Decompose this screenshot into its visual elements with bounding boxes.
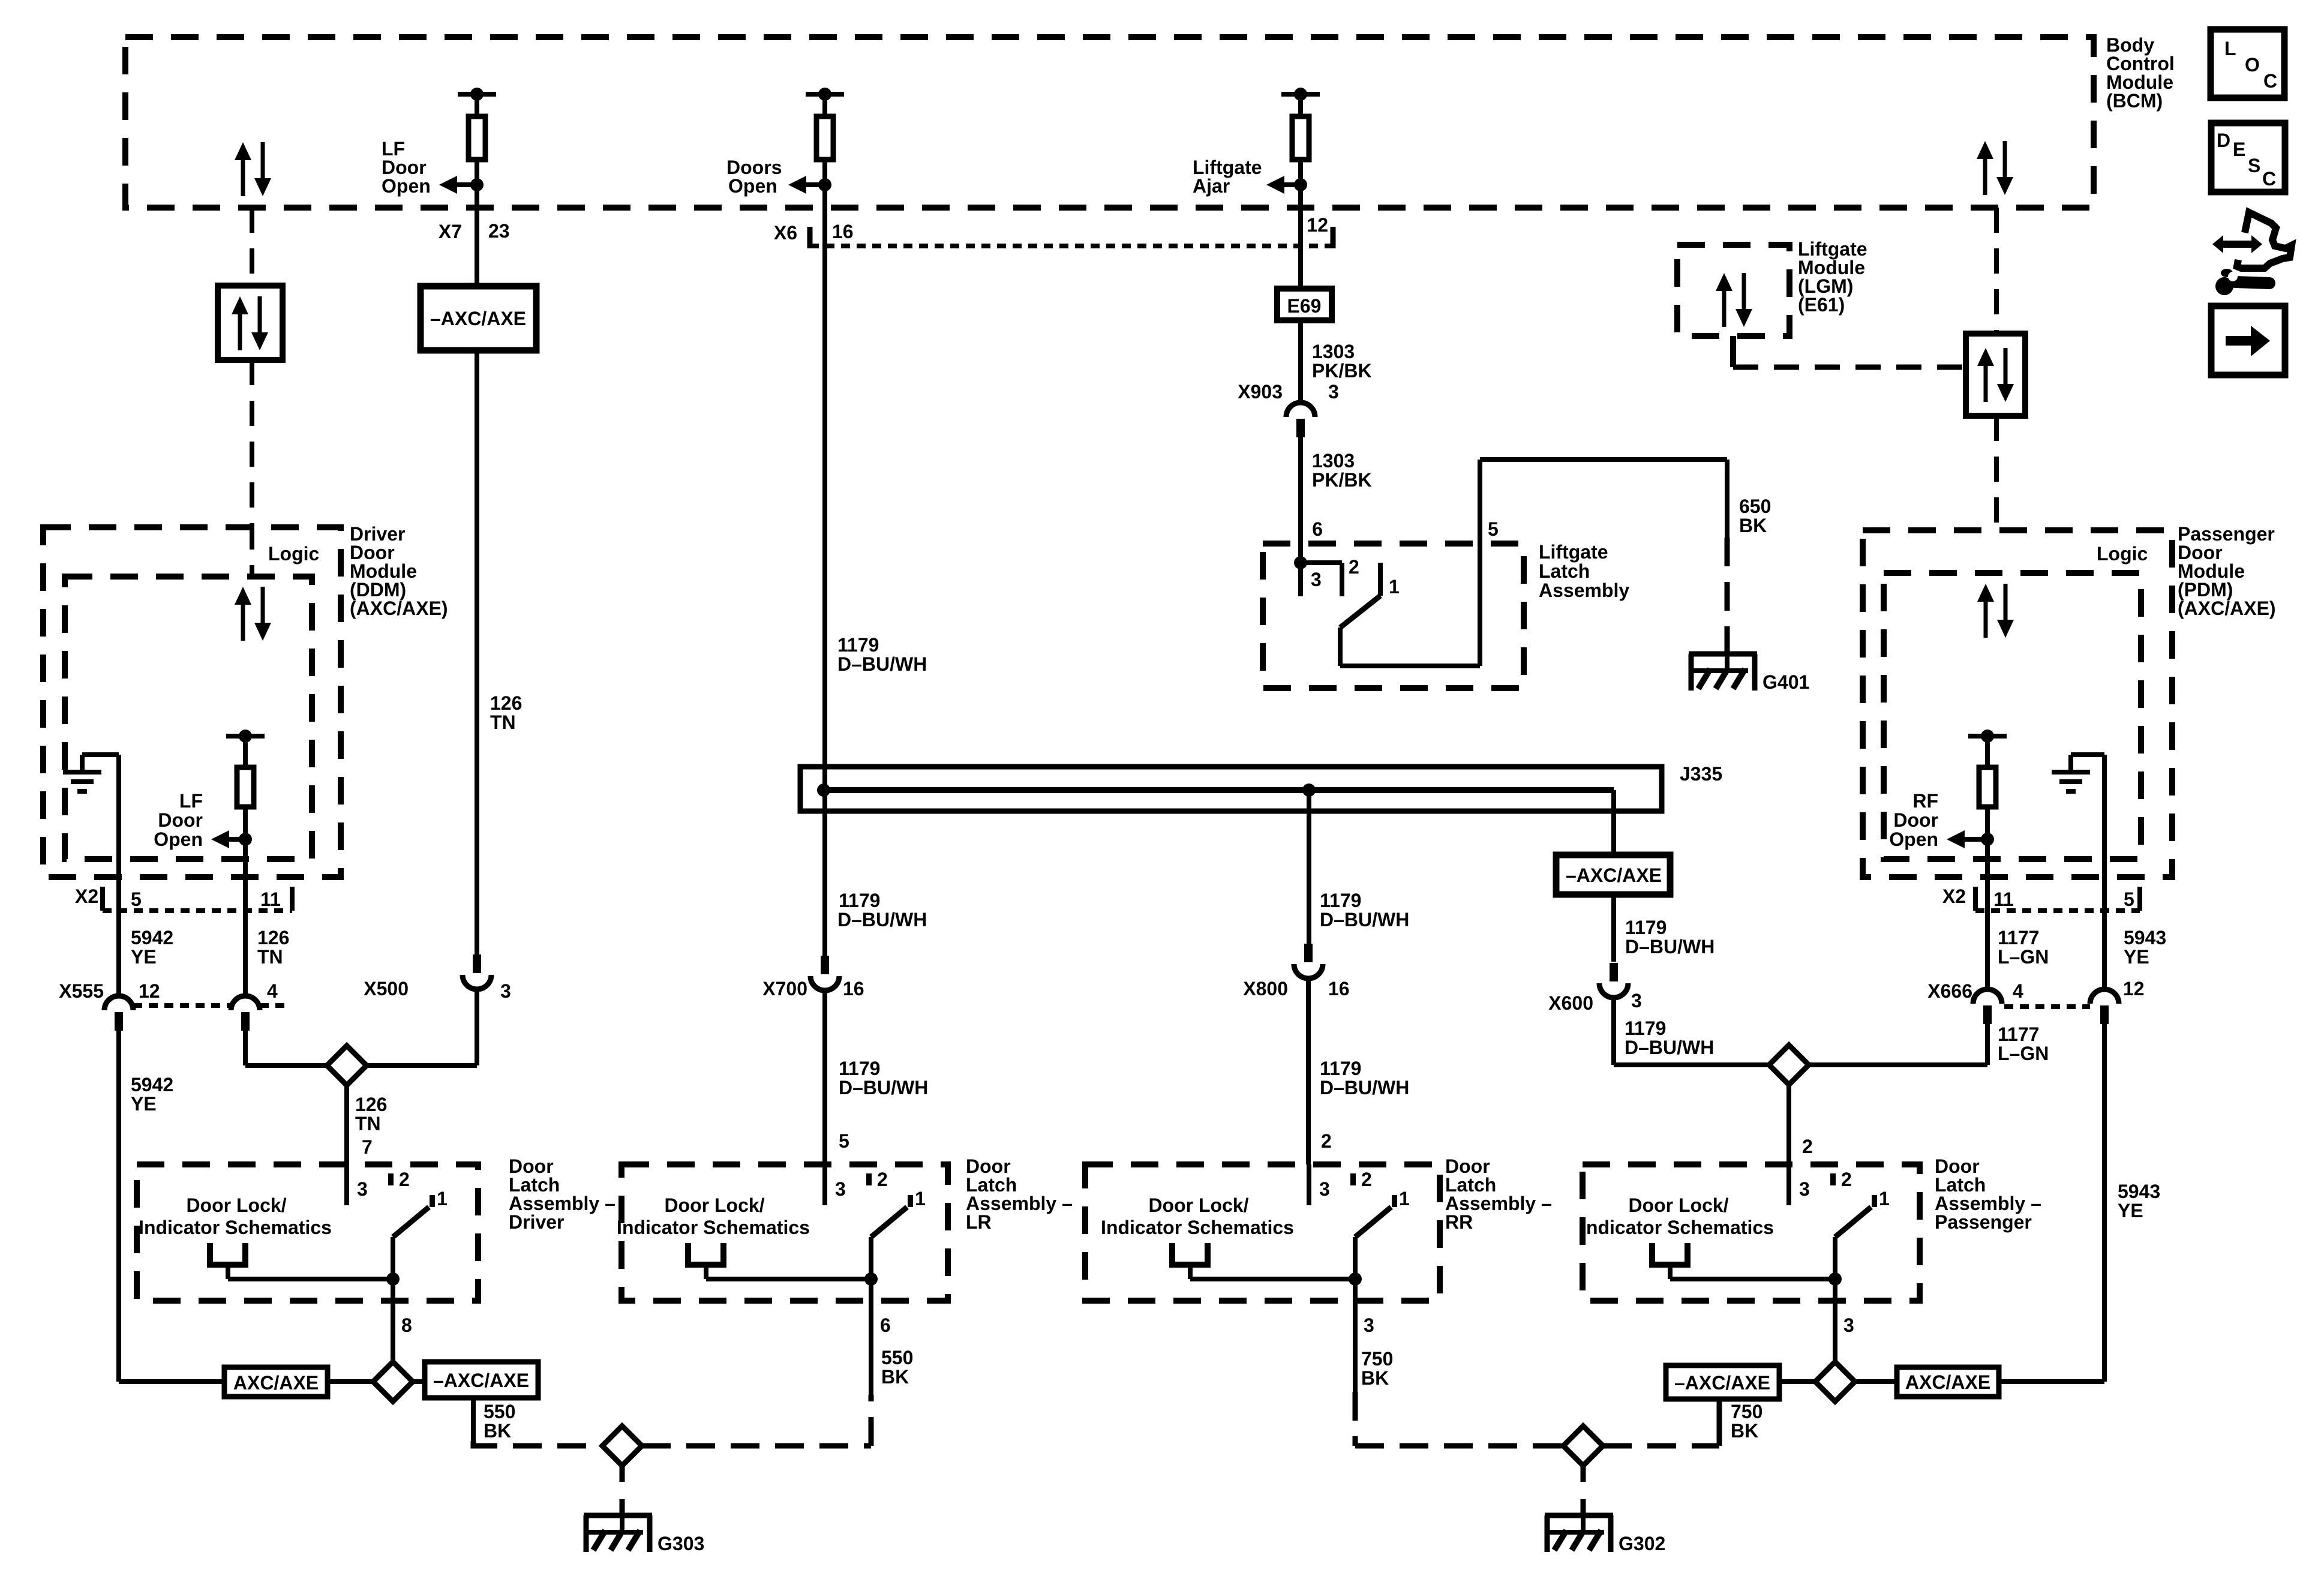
svg-text:1177: 1177: [1998, 927, 2039, 948]
svg-text:Door Lock/: Door Lock/: [1628, 1194, 1728, 1216]
svg-text:3: 3: [1328, 381, 1339, 403]
svg-text:Open: Open: [382, 175, 431, 197]
svg-text:3: 3: [1843, 1314, 1854, 1336]
svg-text:Door: Door: [158, 809, 203, 831]
svg-text:D–BU/WH: D–BU/WH: [837, 653, 927, 675]
svg-text:TN: TN: [257, 946, 283, 968]
svg-text:Open: Open: [1889, 828, 1938, 850]
svg-text:Liftgate: Liftgate: [1539, 541, 1608, 563]
svg-text:G401: G401: [1762, 671, 1809, 693]
svg-text:O: O: [2245, 54, 2260, 76]
svg-text:16: 16: [832, 221, 854, 242]
svg-text:1177: 1177: [1998, 1023, 2039, 1045]
svg-text:5: 5: [1488, 518, 1499, 540]
svg-text:Door Lock/: Door Lock/: [1148, 1194, 1248, 1216]
svg-text:12: 12: [2123, 978, 2145, 999]
svg-text:Driver: Driver: [509, 1211, 565, 1233]
svg-text:Assembly: Assembly: [1539, 580, 1629, 601]
svg-text:550: 550: [881, 1347, 913, 1368]
svg-text:16: 16: [1328, 978, 1350, 999]
svg-text:1179: 1179: [1320, 1058, 1361, 1079]
svg-text:Door: Door: [1893, 809, 1938, 831]
svg-text:D–BU/WH: D–BU/WH: [839, 1077, 928, 1098]
svg-text:YE: YE: [131, 946, 157, 968]
svg-text:Logic: Logic: [2097, 543, 2148, 565]
svg-text:2: 2: [1361, 1169, 1372, 1190]
svg-text:5942: 5942: [131, 1074, 173, 1095]
svg-text:X700: X700: [762, 978, 807, 999]
svg-text:–AXC/AXE: –AXC/AXE: [1674, 1372, 1770, 1394]
svg-text:1: 1: [1389, 576, 1400, 598]
svg-text:126: 126: [355, 1094, 387, 1115]
svg-text:(BCM): (BCM): [2106, 90, 2163, 112]
svg-text:750: 750: [1731, 1401, 1762, 1422]
svg-text:1179: 1179: [839, 1058, 880, 1079]
svg-text:1179: 1179: [839, 890, 880, 911]
svg-text:5: 5: [131, 888, 142, 910]
svg-text:5: 5: [2124, 888, 2134, 910]
svg-text:BK: BK: [1731, 1420, 1758, 1442]
svg-text:6: 6: [1312, 518, 1323, 540]
svg-text:–AXC/AXE: –AXC/AXE: [433, 1370, 529, 1391]
svg-text:2: 2: [1841, 1169, 1852, 1190]
svg-text:3: 3: [357, 1178, 368, 1200]
svg-text:X800: X800: [1243, 978, 1288, 999]
svg-text:11: 11: [260, 888, 281, 910]
svg-text:PK/BK: PK/BK: [1312, 469, 1372, 491]
svg-text:2: 2: [877, 1169, 888, 1190]
svg-text:23: 23: [488, 220, 510, 242]
svg-text:Passenger: Passenger: [1935, 1211, 2032, 1233]
svg-text:1179: 1179: [837, 634, 879, 656]
svg-text:6: 6: [880, 1314, 891, 1336]
svg-text:Door Lock/: Door Lock/: [664, 1194, 764, 1216]
svg-text:Indicator Schematics: Indicator Schematics: [1581, 1217, 1774, 1238]
svg-text:S: S: [2248, 155, 2260, 176]
svg-text:X7: X7: [439, 221, 462, 242]
svg-text:2: 2: [399, 1169, 410, 1190]
svg-text:Door Lock/: Door Lock/: [186, 1194, 286, 1216]
svg-text:Indicator Schematics: Indicator Schematics: [617, 1217, 810, 1238]
svg-text:11: 11: [1993, 888, 2014, 910]
svg-text:E: E: [2233, 139, 2245, 160]
svg-text:J335: J335: [1680, 763, 1722, 785]
svg-text:X903: X903: [1238, 381, 1283, 403]
svg-text:E69: E69: [1287, 295, 1322, 317]
svg-text:TN: TN: [355, 1113, 381, 1134]
svg-text:1179: 1179: [1625, 917, 1667, 938]
svg-text:(AXC/AXE): (AXC/AXE): [350, 598, 448, 619]
svg-text:Logic: Logic: [268, 543, 319, 565]
svg-text:RF: RF: [1912, 790, 1938, 812]
svg-text:D–BU/WH: D–BU/WH: [1625, 1037, 1714, 1058]
svg-text:TN: TN: [490, 712, 516, 733]
svg-text:D–BU/WH: D–BU/WH: [1625, 936, 1715, 957]
svg-text:X2: X2: [1942, 885, 1966, 907]
svg-text:7: 7: [362, 1136, 373, 1158]
svg-text:X6: X6: [774, 222, 797, 244]
svg-text:8: 8: [401, 1314, 412, 1336]
svg-text:126: 126: [257, 927, 289, 948]
svg-text:–AXC/AXE: –AXC/AXE: [430, 308, 526, 329]
svg-text:D: D: [2217, 130, 2230, 151]
svg-text:L–GN: L–GN: [1998, 1043, 2049, 1064]
svg-text:G303: G303: [657, 1533, 704, 1554]
svg-text:3: 3: [1364, 1314, 1374, 1336]
svg-text:3: 3: [1799, 1178, 1810, 1200]
svg-text:4: 4: [267, 980, 278, 1002]
svg-text:5943: 5943: [2118, 1181, 2160, 1202]
svg-text:YE: YE: [2118, 1200, 2143, 1221]
svg-text:650: 650: [1739, 496, 1771, 517]
svg-text:X500: X500: [364, 978, 409, 999]
svg-text:D–BU/WH: D–BU/WH: [1320, 909, 1409, 930]
svg-text:BK: BK: [1361, 1367, 1389, 1389]
svg-text:BK: BK: [484, 1420, 511, 1442]
svg-text:2: 2: [1349, 556, 1359, 578]
svg-text:X2: X2: [75, 885, 98, 907]
svg-text:YE: YE: [131, 1093, 157, 1115]
svg-text:1: 1: [1879, 1188, 1890, 1209]
svg-text:AXC/AXE: AXC/AXE: [1905, 1371, 1990, 1393]
svg-text:Ajar: Ajar: [1193, 175, 1230, 197]
svg-text:750: 750: [1361, 1348, 1393, 1370]
svg-text:L–GN: L–GN: [1998, 946, 2049, 968]
svg-text:X555: X555: [59, 980, 104, 1002]
svg-text:2: 2: [1802, 1136, 1813, 1157]
svg-text:3: 3: [835, 1178, 846, 1200]
svg-text:RR: RR: [1445, 1211, 1473, 1233]
svg-text:Open: Open: [728, 175, 777, 197]
svg-text:L: L: [2224, 38, 2236, 59]
svg-text:G302: G302: [1619, 1533, 1665, 1554]
svg-text:12: 12: [1307, 214, 1328, 236]
svg-text:1: 1: [1399, 1188, 1410, 1209]
svg-text:X600: X600: [1548, 992, 1593, 1014]
svg-text:12: 12: [139, 980, 160, 1002]
svg-text:Open: Open: [154, 828, 203, 850]
svg-text:C: C: [2263, 70, 2277, 92]
svg-text:1179: 1179: [1625, 1017, 1666, 1039]
svg-text:LR: LR: [966, 1211, 992, 1233]
svg-text:D–BU/WH: D–BU/WH: [837, 909, 927, 930]
svg-text:1303: 1303: [1312, 341, 1355, 362]
svg-text:4: 4: [2013, 980, 2023, 1002]
svg-text:Indicator Schematics: Indicator Schematics: [1101, 1217, 1294, 1238]
svg-text:3: 3: [1311, 569, 1322, 590]
svg-text:1: 1: [437, 1188, 448, 1209]
svg-text:1303: 1303: [1312, 450, 1355, 472]
svg-text:(E61): (E61): [1798, 294, 1845, 316]
svg-text:2: 2: [1321, 1130, 1332, 1152]
svg-text:Indicator Schematics: Indicator Schematics: [139, 1217, 332, 1238]
svg-text:(AXC/AXE): (AXC/AXE): [2178, 598, 2276, 619]
svg-text:5943: 5943: [2124, 927, 2166, 948]
svg-text:BK: BK: [1739, 515, 1767, 536]
svg-text:–AXC/AXE: –AXC/AXE: [1566, 864, 1662, 886]
svg-text:3: 3: [1319, 1178, 1330, 1200]
svg-text:550: 550: [484, 1401, 515, 1422]
svg-text:PK/BK: PK/BK: [1312, 360, 1372, 382]
svg-text:Latch: Latch: [1539, 560, 1590, 582]
svg-text:BK: BK: [881, 1366, 909, 1388]
svg-text:3: 3: [1631, 990, 1642, 1011]
svg-text:D–BU/WH: D–BU/WH: [1320, 1077, 1409, 1098]
svg-text:16: 16: [843, 978, 864, 999]
svg-text:LF: LF: [179, 790, 203, 812]
svg-text:X666: X666: [1927, 980, 1972, 1002]
svg-text:126: 126: [490, 692, 522, 714]
svg-text:YE: YE: [2124, 946, 2149, 968]
svg-text:3: 3: [500, 980, 511, 1002]
svg-text:AXC/AXE: AXC/AXE: [233, 1372, 319, 1394]
svg-text:1179: 1179: [1320, 890, 1361, 911]
svg-text:C: C: [2262, 168, 2276, 190]
svg-text:5: 5: [839, 1130, 849, 1152]
svg-text:1: 1: [915, 1188, 926, 1209]
svg-text:5942: 5942: [131, 927, 173, 948]
